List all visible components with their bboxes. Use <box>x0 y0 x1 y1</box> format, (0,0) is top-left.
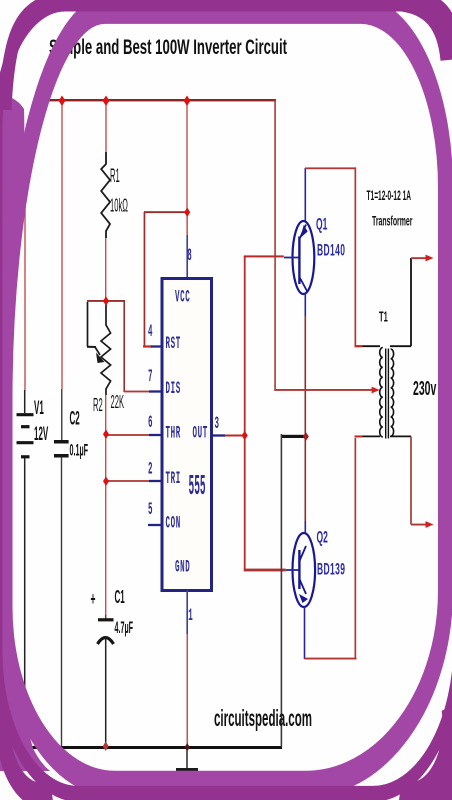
svg-text:R2: R2 <box>93 394 103 415</box>
svg-text:RST: RST <box>166 334 181 353</box>
svg-text:Q2: Q2 <box>317 527 328 546</box>
svg-text:CON: CON <box>166 513 181 532</box>
svg-text:BD139: BD139 <box>317 559 345 578</box>
svg-text:Transformer: Transformer <box>372 214 413 229</box>
svg-text:12V: 12V <box>34 424 48 445</box>
svg-text:1: 1 <box>188 606 193 625</box>
svg-text:4: 4 <box>148 322 153 341</box>
svg-text:V1: V1 <box>34 398 44 419</box>
svg-text:6: 6 <box>148 413 153 432</box>
svg-text:R1: R1 <box>110 165 120 187</box>
svg-text:10kΩ: 10kΩ <box>110 195 128 216</box>
svg-text:THR: THR <box>166 423 181 442</box>
svg-text:7: 7 <box>148 367 153 386</box>
svg-text:TRI: TRI <box>166 469 181 488</box>
svg-text:+: + <box>91 590 96 611</box>
svg-text:555: 555 <box>189 471 206 503</box>
svg-text:0.1µF: 0.1µF <box>70 440 89 459</box>
svg-text:VCC: VCC <box>175 287 190 306</box>
svg-text:GND: GND <box>175 557 190 576</box>
svg-text:C1: C1 <box>115 587 125 608</box>
svg-text:T1: T1 <box>379 308 388 326</box>
svg-text:2: 2 <box>148 459 153 478</box>
svg-text:3: 3 <box>215 414 220 433</box>
svg-text:T1=12-0-12 1A: T1=12-0-12 1A <box>367 189 412 204</box>
svg-text:C2: C2 <box>70 409 80 430</box>
svg-text:Simple and Best 100W Inverter: Simple and Best 100W Inverter Circuit <box>49 34 287 58</box>
svg-text:circuitspedia.com: circuitspedia.com <box>214 705 312 731</box>
svg-text:OUT: OUT <box>193 423 208 442</box>
svg-text:22K: 22K <box>111 391 125 412</box>
svg-text:Q1: Q1 <box>316 214 327 233</box>
svg-text:4.7µF: 4.7µF <box>115 617 134 636</box>
svg-text:5: 5 <box>148 500 153 519</box>
svg-text:BD140: BD140 <box>317 240 345 259</box>
svg-text:DIS: DIS <box>166 379 181 398</box>
svg-text:8: 8 <box>187 246 192 265</box>
